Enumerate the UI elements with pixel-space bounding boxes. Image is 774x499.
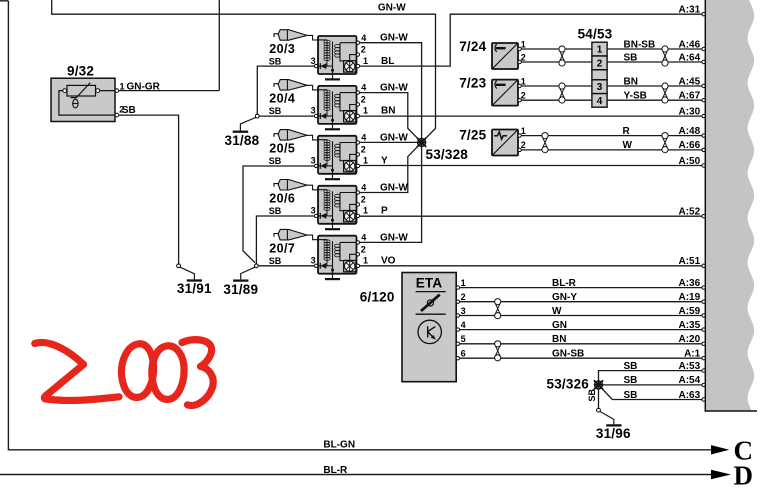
svg-text:31/96: 31/96: [596, 426, 631, 441]
svg-text:A:64: A:64: [679, 52, 701, 63]
svg-text:Y: Y: [381, 156, 388, 167]
connector 54/53: [578, 26, 613, 107]
wire: 7/24 pin2 to connector 54/53 cell2: [521, 61, 592, 63]
ground 31/91: [180, 267, 195, 279]
svg-text:SB: SB: [587, 388, 597, 401]
svg-text:1: 1: [120, 81, 125, 91]
wire: SB coil 20/7 pin3 to splice 31/89: [258, 265, 314, 267]
svg-text:3: 3: [311, 256, 316, 266]
svg-text:SB: SB: [624, 52, 638, 63]
svg-text:A:45: A:45: [679, 76, 701, 87]
svg-text:A:51: A:51: [679, 256, 701, 267]
svg-text:1: 1: [461, 278, 466, 288]
svg-text:SB: SB: [269, 106, 282, 116]
svg-text:4: 4: [461, 320, 466, 330]
svg-text:2: 2: [521, 140, 526, 150]
wire: SB from 9/32 pin2 to ground 31/91: [119, 115, 179, 264]
wire: P coil 20/6 pin1 to A:52: [359, 215, 704, 217]
twisted pair BN-SB/SB: [662, 46, 668, 66]
svg-text:3: 3: [311, 156, 316, 166]
wire: GN-W bus coil 20/3 pin4 down to 20/7 pin4 through junction: [359, 43, 422, 243]
svg-text:3: 3: [461, 306, 466, 316]
ECM pin terminals at band: [702, 13, 705, 402]
svg-text:20/6: 20/6: [269, 192, 295, 206]
svg-text:VO: VO: [381, 256, 396, 267]
svg-text:31/88: 31/88: [225, 133, 260, 148]
svg-text:SB: SB: [269, 206, 282, 216]
wire: GN-W coil 20/4 pin4 to junction: [359, 93, 422, 143]
svg-text:20/4: 20/4: [269, 92, 295, 106]
wire: 7/23 pin2 to connector 54/53 cell4: [521, 99, 592, 101]
page edge mark top-left: [0, 0, 8, 2]
svg-text:GN-W: GN-W: [380, 33, 408, 44]
svg-text:GN: GN: [552, 320, 567, 331]
svg-text:BL: BL: [381, 56, 394, 67]
ignition coil 20/6: [269, 180, 409, 230]
svg-text:1: 1: [363, 156, 368, 166]
wire: VO coil 20/7 pin1 to A:51: [359, 265, 704, 267]
wire: SB coil 20/4 pin3 to splice 31/88: [259, 115, 314, 117]
svg-text:SB: SB: [624, 361, 638, 372]
svg-text:A:46: A:46: [679, 39, 701, 50]
wire: GN-W supply bus from top to junction 53/328: [52, 0, 436, 142]
svg-text:5: 5: [461, 334, 466, 344]
twisted pair 7/25 near sensor: [542, 133, 548, 153]
svg-text:A:59: A:59: [679, 306, 701, 317]
svg-text:4: 4: [361, 83, 366, 93]
knock sensor 7/23: [459, 75, 526, 105]
svg-text:A:63: A:63: [679, 390, 701, 401]
svg-text:BL-R: BL-R: [552, 278, 577, 289]
throttle unit ETA 6/120: [360, 273, 456, 382]
svg-text:GN-W: GN-W: [380, 83, 408, 94]
wire: bottom feed to D: [0, 474, 713, 476]
svg-text:20/7: 20/7: [269, 242, 295, 256]
svg-text:7/24: 7/24: [459, 39, 486, 54]
ignition coil 20/7: [269, 229, 409, 279]
wire: SB coil 20/5 pin3 to splice 31/89: [243, 166, 314, 263]
svg-text:D: D: [734, 461, 754, 491]
svg-text:2: 2: [521, 52, 526, 62]
twisted pair ETA pins 5-6: [495, 341, 501, 361]
ground 31/96: [600, 411, 614, 424]
wire: BL-R ETA pin1 to A:36: [460, 287, 704, 289]
svg-text:54/53: 54/53: [578, 26, 613, 41]
svg-text:P: P: [381, 206, 388, 217]
svg-text:1: 1: [363, 256, 368, 266]
wire: BN-SB cell1 to A:46: [607, 48, 704, 50]
svg-text:BN: BN: [381, 106, 395, 117]
ETA pin terminals: [456, 278, 465, 360]
svg-text:3: 3: [311, 106, 316, 116]
svg-text:A:36: A:36: [679, 278, 701, 289]
svg-text:4: 4: [597, 96, 603, 107]
rpm sensor 7/25: [459, 126, 526, 156]
wire: GN-SB ETA pin6 to A:1: [460, 357, 704, 359]
wire: BN coil 20/4 pin1 to A:30: [359, 115, 704, 117]
svg-text:3: 3: [311, 56, 316, 66]
svg-text:9/32: 9/32: [67, 64, 94, 79]
svg-text:A:67: A:67: [679, 91, 701, 102]
svg-text:1: 1: [363, 206, 368, 216]
svg-text:1: 1: [521, 76, 526, 86]
svg-text:A:66: A:66: [679, 140, 701, 151]
ground 31/89: [241, 267, 255, 279]
svg-text:A:1: A:1: [684, 349, 701, 360]
node terminal 31/96: [597, 408, 601, 412]
svg-text:R: R: [623, 126, 631, 137]
svg-text:2: 2: [461, 292, 466, 302]
svg-text:2: 2: [361, 244, 366, 254]
node terminal 31/89: [255, 264, 259, 268]
wire: GN-W coil 20/5 pin4 to junction: [359, 141, 422, 143]
svg-text:2: 2: [361, 95, 366, 105]
svg-text:SB: SB: [269, 56, 282, 66]
svg-text:A:20: A:20: [679, 334, 701, 345]
arrow D: [711, 470, 731, 479]
svg-text:A:54: A:54: [679, 375, 701, 386]
svg-text:1: 1: [521, 39, 526, 49]
svg-text:GN-Y: GN-Y: [552, 292, 577, 303]
svg-text:2: 2: [361, 45, 366, 55]
wire: GN-Y ETA pin2 to A:19: [460, 301, 704, 303]
svg-text:1: 1: [363, 106, 368, 116]
twisted pair R/W near ECM: [662, 133, 668, 153]
svg-text:A:48: A:48: [679, 126, 701, 137]
svg-text:BN: BN: [552, 334, 566, 345]
svg-text:A:30: A:30: [679, 106, 701, 117]
ignition coil 20/4: [269, 80, 409, 130]
wire: 7/23 pin1 to connector 54/53 cell3: [521, 85, 592, 87]
svg-text:2: 2: [361, 145, 366, 155]
wire: Y-SB cell4 to A:67: [607, 99, 704, 101]
ignition coil 20/3: [269, 30, 409, 80]
svg-text:Y-SB: Y-SB: [624, 91, 647, 102]
handwriting 2003 red: [35, 340, 213, 406]
svg-text:4: 4: [361, 233, 366, 243]
svg-text:A:19: A:19: [679, 292, 701, 303]
svg-text:SB: SB: [269, 156, 282, 166]
svg-text:7/23: 7/23: [459, 75, 486, 90]
arrow C: [711, 445, 729, 454]
svg-text:GN-SB: GN-SB: [552, 349, 584, 360]
twisted pair 7/24: [559, 46, 565, 66]
svg-text:2: 2: [597, 59, 603, 70]
svg-text:4: 4: [361, 183, 366, 193]
splice 53/326: [594, 380, 603, 389]
svg-text:7/25: 7/25: [459, 127, 486, 142]
wire: SB A:54 to splice 53/326: [599, 384, 704, 386]
svg-text:BL-R: BL-R: [323, 465, 348, 476]
svg-text:1: 1: [363, 56, 368, 66]
ECM connector band A (torn edge): [705, 0, 758, 411]
wire: W ETA pin3 to A:59: [460, 315, 704, 317]
svg-text:31/89: 31/89: [223, 282, 258, 297]
ignition coil 20/5: [269, 130, 409, 180]
svg-text:A:50: A:50: [679, 156, 701, 167]
svg-text:ETA: ETA: [416, 275, 443, 290]
wire: SB cell2 to A:64: [607, 61, 704, 63]
svg-text:31/91: 31/91: [177, 281, 212, 296]
wire: SB A:63 to splice 53/326: [599, 385, 704, 400]
wire: Y coil 20/5 pin1 to A:50: [359, 165, 704, 167]
svg-text:BN: BN: [624, 76, 638, 87]
splice 53/328: [417, 138, 426, 147]
wire: BL from coil 20/3 pin1 up to ECM A:31: [359, 14, 704, 66]
svg-text:20/3: 20/3: [269, 42, 295, 56]
wire: GN ETA pin4 to A:35: [460, 329, 704, 331]
svg-text:SB: SB: [624, 375, 638, 386]
svg-text:4: 4: [361, 133, 366, 143]
svg-text:A:35: A:35: [679, 320, 701, 331]
wire: R 7/25 pin1 to A:48: [521, 135, 703, 137]
svg-text:A:52: A:52: [679, 207, 701, 218]
svg-text:53/328: 53/328: [426, 147, 469, 162]
svg-text:BL-GN: BL-GN: [323, 439, 355, 450]
twisted pair BN/Y-SB: [662, 83, 668, 103]
svg-text:6: 6: [461, 349, 466, 359]
wire: 7/24 pin1 to connector 54/53 cell1: [521, 48, 592, 50]
svg-text:53/326: 53/326: [547, 377, 590, 392]
svg-text:A:31: A:31: [679, 5, 701, 16]
svg-text:2: 2: [361, 195, 366, 205]
node terminal 31/91: [177, 264, 181, 268]
svg-text:20/5: 20/5: [269, 142, 295, 156]
svg-text:BN-SB: BN-SB: [624, 39, 656, 50]
svg-text:GN-W: GN-W: [378, 2, 406, 13]
component 9/32 engine temp sensor: [51, 64, 161, 122]
svg-text:3: 3: [597, 82, 603, 93]
svg-text:W: W: [623, 140, 633, 151]
svg-text:1: 1: [597, 45, 603, 56]
twisted pair ETA pins 2-3: [495, 299, 501, 319]
twisted pair 7/23: [559, 83, 565, 103]
node terminal 31/88: [255, 114, 259, 118]
wire: SB A:53 to splice 53/326: [599, 371, 704, 385]
svg-text:W: W: [552, 306, 562, 317]
svg-text:SB: SB: [122, 105, 136, 116]
wire: SB coil 20/6 pin3 to splice 31/89: [256, 216, 314, 264]
wire: BN ETA pin5 to A:20: [460, 343, 704, 345]
svg-text:SB: SB: [269, 256, 282, 266]
svg-text:A:53: A:53: [679, 361, 701, 372]
svg-text:6/120: 6/120: [360, 290, 395, 305]
ground 31/88: [240, 117, 256, 130]
svg-text:4: 4: [361, 33, 366, 43]
wire: GN-GR from 9/32 pin1 up off-page: [119, 0, 220, 91]
knock sensor 7/24: [459, 39, 526, 69]
wire: BN cell3 to A:45: [607, 85, 704, 87]
wire: SB coil 20/3 pin3 to splice 31/88: [257, 66, 314, 114]
svg-text:SB: SB: [624, 390, 638, 401]
svg-text:1: 1: [521, 126, 526, 136]
wire: GN-W coil 20/6 pin4 to junction: [359, 142, 422, 192]
svg-text:3: 3: [311, 206, 316, 216]
wire: SB splice down to ground: [598, 388, 600, 408]
svg-text:GN-W: GN-W: [380, 133, 408, 144]
svg-text:GN-W: GN-W: [380, 183, 408, 194]
wire: W 7/25 pin2 to A:66: [521, 149, 703, 151]
svg-text:GN-W: GN-W: [380, 232, 408, 243]
svg-text:2: 2: [521, 91, 526, 101]
